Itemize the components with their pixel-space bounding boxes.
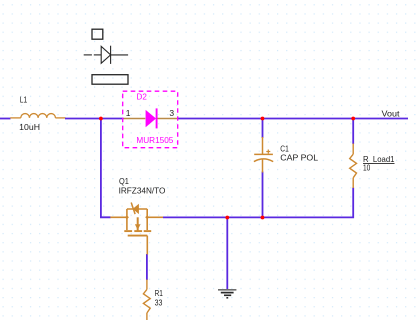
svg-text:CAP POL: CAP POL xyxy=(280,152,318,162)
svg-text:10uH: 10uH xyxy=(19,122,40,132)
wire: top net from left edge to L1 xyxy=(0,118,11,120)
wire: Q1 gate down to R1 xyxy=(146,254,148,280)
wire: L1 to node A xyxy=(65,118,124,120)
inductor L1 xyxy=(10,114,65,118)
svg-text:1: 1 xyxy=(126,108,131,118)
svg-text:3: 3 xyxy=(169,108,174,118)
svg-text:33: 33 xyxy=(155,297,163,307)
junction at node A xyxy=(99,117,103,121)
svg-text:10: 10 xyxy=(363,163,370,173)
ground xyxy=(218,290,236,298)
resistor R1 xyxy=(143,280,150,320)
junction at ground node xyxy=(225,216,229,220)
svg-text:IRFZ34N/TO: IRFZ34N/TO xyxy=(119,185,166,195)
diode D2 xyxy=(123,91,178,148)
wire: D2 cathode to right edge xyxy=(177,118,408,120)
unplaced square symbol xyxy=(92,29,103,39)
svg-text:MUR1505: MUR1505 xyxy=(136,135,173,145)
junction at R_Load1 top xyxy=(351,117,355,121)
wire: top net down to C1 positive lead xyxy=(262,119,264,139)
wire: C1 negative lead down to bottom net xyxy=(262,172,264,218)
svg-text:D2: D2 xyxy=(137,92,148,102)
resistor R_Load1 xyxy=(350,144,357,189)
unplaced diode symbol xyxy=(84,46,128,64)
wire: bottom net down to ground xyxy=(226,218,228,290)
wire: Q1 source to R_Load1 bottom corner xyxy=(163,188,353,218)
wire: top net down to R_Load1 top lead xyxy=(352,119,354,145)
capacitor C1 xyxy=(254,137,273,173)
junction at C1 top xyxy=(261,117,265,121)
unplaced rectangle symbol xyxy=(92,75,128,85)
transistor Q1 xyxy=(110,203,163,255)
svg-text:Vout: Vout xyxy=(382,109,401,119)
svg-text:L1: L1 xyxy=(20,95,28,105)
junction at C1 bottom xyxy=(261,216,265,220)
wire: node A down to Q1 drain xyxy=(101,119,111,218)
